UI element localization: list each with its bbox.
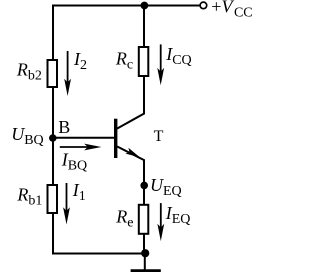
svg-text:I2: I2 [73,49,87,73]
svg-text:Rb2: Rb2 [16,60,42,84]
wire collector vertical [143,6,145,115]
svg-text:UBQ: UBQ [11,124,43,148]
junction dot bottom rail [141,249,149,257]
current arrow ICQ [157,44,164,85]
ground [131,269,161,272]
wire left branch vertical [52,5,54,254]
svg-text:+VCC: +VCC [211,0,252,21]
svg-text:B: B [58,117,70,137]
wire bottom rail [52,253,145,255]
svg-text:IEQ: IEQ [165,203,191,227]
svg-text:Rb1: Rb1 [16,185,42,209]
node B junction dot [49,134,57,142]
resistor Re [139,205,149,234]
resistor Rb1 [48,185,58,213]
transistor T collector diagonal [117,113,145,128]
svg-text:IBQ: IBQ [61,149,87,173]
current arrow IBQ [60,144,102,151]
resistor Rc [139,47,149,76]
wire base from node B to transistor [53,137,114,139]
transistor T emitter diagonal [117,146,145,160]
svg-text:I1: I1 [72,180,86,204]
wire ground stub [144,254,146,270]
junction dot top rail [141,2,149,10]
wire emitter vertical [143,159,145,253]
svg-text:T: T [154,128,164,145]
current arrow I2 [64,51,71,96]
svg-text:UEQ: UEQ [150,175,182,199]
current arrow I1 [63,183,70,225]
transistor T emitter arrow [125,148,139,158]
svg-text:Re: Re [115,207,133,231]
node UEQ junction dot [140,182,148,190]
resistor Rb2 [48,60,58,87]
terminal +Vcc open circle [200,2,207,9]
current arrow IEQ [157,203,164,241]
svg-text:ICQ: ICQ [165,44,191,68]
transistor T base bar [114,119,117,158]
svg-text:Rc: Rc [115,48,133,72]
wire top rail [52,5,200,7]
